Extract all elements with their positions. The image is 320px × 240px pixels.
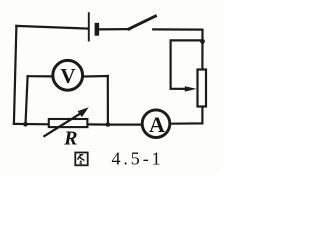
wire battery to switch <box>99 28 129 30</box>
wire wiper loop: left and down from node <box>171 40 203 89</box>
battery B1 long plate <box>88 13 90 40</box>
wire V loop left vertical <box>26 76 28 124</box>
wire V loop right stub <box>84 75 108 78</box>
wire rheostat right to junction <box>88 123 108 125</box>
wire resistor bottom to ammeter <box>171 107 202 123</box>
wire bottom-left (to rheostat) <box>14 123 49 126</box>
svg-text:R: R <box>63 127 77 149</box>
wire V loop right vertical <box>107 76 109 125</box>
wire left side <box>14 26 17 124</box>
rheostat R1 arrowhead <box>78 107 89 117</box>
svg-text:V: V <box>60 64 75 88</box>
node junction dot top-right <box>200 39 205 44</box>
ammeter A1 circle <box>142 110 170 138</box>
node junction dot bottom-left of V loop <box>23 122 28 127</box>
voltmeter V1 circle <box>53 60 83 90</box>
caption character 图 (drawn) <box>75 153 87 166</box>
wire switch right terminal to top-right corner, down to node <box>153 29 202 68</box>
rheostat R1 body <box>49 119 88 127</box>
wiper arrowhead on resistor R2 <box>185 86 197 91</box>
resistor R2 (vertical, right side) <box>198 70 207 107</box>
battery B1 short thick plate <box>95 23 100 36</box>
wire top (left corner to battery) <box>16 26 87 29</box>
switch S blade <box>129 16 156 29</box>
wire V loop left stub <box>28 75 52 77</box>
rheostat R1 arrow shaft <box>44 113 81 136</box>
node junction dot bottom-right of V loop <box>106 122 111 127</box>
svg-text:A: A <box>149 112 165 137</box>
wire ammeter left to junction <box>108 123 142 125</box>
svg-text:4.5-1: 4.5-1 <box>112 149 164 169</box>
